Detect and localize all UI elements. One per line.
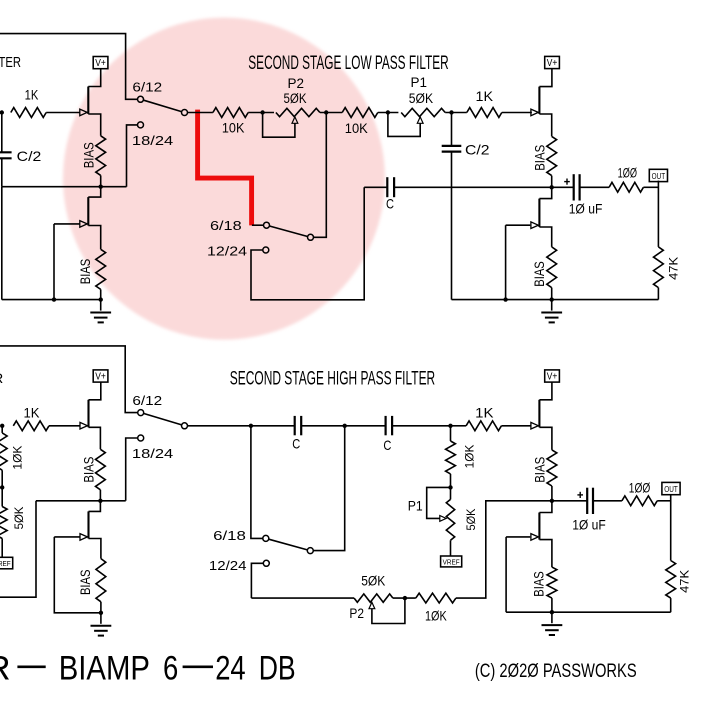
svg-text:R: R bbox=[0, 649, 11, 687]
transistor Q5 (upper JFET, HP first stage) bbox=[89, 382, 101, 400]
svg-text:BIAS: BIAS bbox=[532, 571, 547, 597]
svg-text:SECOND STAGE LOW PASS FILTER: SECOND STAGE LOW PASS FILTER bbox=[248, 53, 448, 74]
capacitor C/2 (left, cut) bbox=[0, 151, 12, 153]
V+ box U3 (HP first stage) bbox=[93, 370, 108, 382]
svg-text:BIAS: BIAS bbox=[532, 457, 547, 483]
junction dot bias rail (HP) bbox=[98, 499, 102, 503]
svg-text:12/24: 12/24 bbox=[207, 243, 247, 258]
VREF box (HP left, cut) bbox=[0, 557, 13, 569]
svg-text:1ØØ: 1ØØ bbox=[629, 479, 651, 495]
svg-text:BIAS: BIAS bbox=[81, 457, 96, 483]
resistor BIAS (Q6) bbox=[96, 559, 106, 602]
switch 6/18 (HP) bbox=[263, 535, 269, 541]
svg-text:1ØK: 1ØK bbox=[462, 445, 476, 469]
electrolytic + sign bbox=[564, 181, 570, 183]
resistor 47K (LP) bbox=[654, 247, 664, 288]
junction dot HP output rail bbox=[550, 610, 554, 614]
bottom rail HP output bbox=[506, 611, 671, 613]
resistor 10K #1 (LP) bbox=[213, 108, 248, 118]
capacitor 10uF (HP) bbox=[552, 500, 587, 502]
resistor 10K vertical (HP right) bbox=[450, 426, 452, 441]
junction node P2 right bbox=[324, 110, 328, 114]
svg-text:VREF: VREF bbox=[443, 557, 460, 566]
resistor BIAS (Q8) bbox=[547, 567, 557, 598]
junction dot bias rail bbox=[99, 185, 103, 189]
svg-text:5ØK: 5ØK bbox=[284, 91, 307, 106]
wire 1K to Q3 gate bbox=[502, 112, 532, 114]
junction dot main 2 (HP) bbox=[343, 424, 347, 428]
svg-text:BIAS: BIAS bbox=[78, 259, 93, 285]
svg-text:6: 6 bbox=[163, 649, 178, 687]
bottom net HP bbox=[251, 597, 354, 599]
svg-text:VREF: VREF bbox=[0, 559, 11, 568]
riser to 6/18 (HP) bbox=[251, 426, 263, 539]
resistor 100 (LP) bbox=[609, 182, 643, 192]
wire first-stage box top (HP) bbox=[0, 346, 138, 413]
svg-text:R: R bbox=[0, 371, 3, 387]
svg-text:5ØK: 5ØK bbox=[12, 507, 26, 530]
svg-text:BIAMP: BIAMP bbox=[59, 649, 150, 687]
wire 10K2 to P1 bbox=[378, 112, 399, 114]
junction dot main 3 (HP) bbox=[448, 424, 452, 428]
svg-text:5ØK: 5ØK bbox=[409, 91, 433, 106]
ground (HP first stage) bbox=[100, 613, 102, 624]
svg-text:5ØK: 5ØK bbox=[361, 573, 385, 588]
switch 12/24 (HP) bbox=[263, 560, 269, 566]
resistor BIAS (Q1 source) bbox=[96, 136, 106, 176]
resistor 10K #2 (LP) bbox=[342, 108, 378, 118]
capacitor C/2 (right) bbox=[451, 113, 453, 146]
highlighted wire (red trace 6/18 path) bbox=[198, 110, 252, 226]
potentiometer P1 (LP) 50K bbox=[401, 108, 445, 116]
wire 10K to gate node (HP) bbox=[456, 501, 552, 598]
resistor BIAS (Q7) bbox=[547, 450, 557, 486]
svg-text:24: 24 bbox=[215, 649, 246, 687]
svg-text:1Ø uF: 1Ø uF bbox=[572, 517, 606, 533]
capacitor C (LP) bbox=[386, 177, 388, 197]
svg-text:P1: P1 bbox=[411, 75, 428, 90]
transistor Q3 (upper JFET, LP output) bbox=[539, 68, 552, 87]
svg-text:47K: 47K bbox=[678, 570, 692, 593]
ground (HP output) bbox=[551, 612, 553, 623]
transistor Q2 (lower JFET, LP first stage) bbox=[88, 187, 100, 197]
svg-text:1K: 1K bbox=[476, 88, 494, 104]
junction dot main 1 (HP) bbox=[249, 424, 253, 428]
main wire HP bbox=[188, 425, 251, 427]
capacitor C #2 (HP) bbox=[345, 425, 386, 427]
V+ box U4 (HP output) bbox=[545, 370, 560, 382]
svg-text:10K: 10K bbox=[345, 120, 369, 136]
resistor BIAS (Q4) bbox=[547, 247, 557, 288]
svg-text:1Ø uF: 1Ø uF bbox=[569, 201, 603, 217]
svg-text:V+: V+ bbox=[95, 58, 106, 69]
potentiometer P2 (HP) 50K bbox=[354, 594, 393, 602]
V+ box U2 (LP output) bbox=[545, 56, 560, 68]
svg-text:C: C bbox=[383, 437, 391, 453]
svg-text:TER: TER bbox=[0, 55, 21, 71]
resistor BIAS (Q2 source) bbox=[96, 249, 106, 289]
svg-text:BIAS: BIAS bbox=[532, 145, 547, 171]
svg-text:1ØK: 1ØK bbox=[10, 446, 24, 470]
electrolytic + sign (HP) bbox=[577, 494, 583, 496]
resistor 10K (HP bottom) bbox=[416, 593, 456, 603]
transistor Q6 (lower JFET, HP first stage) bbox=[89, 501, 101, 512]
svg-text:18/24: 18/24 bbox=[132, 133, 173, 148]
main wire LP bbox=[188, 112, 213, 114]
left column 10K vertical (HP) bbox=[1, 426, 3, 433]
junction dot bottom (HP left) bbox=[99, 611, 103, 615]
junction dots bottom rail bbox=[52, 297, 56, 301]
svg-text:V+: V+ bbox=[547, 372, 558, 383]
switch 18/24 (HP) bbox=[138, 435, 144, 441]
svg-text:5ØK: 5ØK bbox=[464, 509, 478, 531]
mid rail LP first stage bbox=[2, 186, 127, 188]
resistor BIAS (Q5) bbox=[96, 449, 106, 490]
resistor BIAS (Q3) bbox=[547, 136, 557, 175]
switch blade (HP) bbox=[144, 414, 182, 425]
capacitor 10uF (LP) bbox=[552, 186, 574, 188]
ground (LP first stage) bbox=[100, 300, 102, 311]
bottom rail LP output bbox=[452, 299, 659, 301]
svg-text:C: C bbox=[292, 435, 300, 451]
svg-text:P1: P1 bbox=[408, 498, 423, 514]
wire 100 to OUT bbox=[643, 186, 658, 188]
svg-text:6/18: 6/18 bbox=[210, 218, 242, 233]
svg-text:V+: V+ bbox=[547, 58, 558, 69]
switch 6/12 throw (HP) bbox=[138, 410, 144, 416]
svg-text:C/2: C/2 bbox=[465, 142, 490, 158]
svg-text:12/24: 12/24 bbox=[209, 558, 247, 573]
switch 18/24 throw contact bbox=[138, 122, 144, 128]
switch 6/18 (LP) bbox=[252, 224, 263, 226]
junction node C/2 right bbox=[449, 110, 453, 114]
resistor 1K (LP right) bbox=[467, 108, 502, 118]
svg-text:BIAS: BIAS bbox=[532, 261, 547, 287]
resistor 47K (HP) bbox=[666, 561, 676, 599]
svg-text:18/24: 18/24 bbox=[132, 446, 173, 461]
switch 6/12 throw contact bbox=[138, 96, 144, 102]
junction node P2 left bbox=[260, 110, 264, 114]
svg-text:OUT: OUT bbox=[664, 484, 678, 494]
svg-text:P2: P2 bbox=[349, 605, 364, 621]
transistor Q1 (upper JFET, LP first stage) bbox=[88, 68, 100, 86]
capacitor C #1 (HP) bbox=[251, 425, 295, 427]
svg-text:1ØK: 1ØK bbox=[425, 608, 447, 624]
svg-text:1K: 1K bbox=[475, 405, 494, 421]
V+ box U1 (low-pass first stage) bbox=[93, 57, 108, 69]
resistor 1K (HP first stage) bbox=[13, 421, 49, 431]
svg-text:BIAS: BIAS bbox=[78, 570, 93, 596]
wire node line LP bbox=[364, 186, 387, 188]
junction dot P2 right (HP) bbox=[403, 596, 407, 600]
resistor 1K (HP right) bbox=[466, 421, 501, 431]
svg-text:6/18: 6/18 bbox=[213, 528, 246, 543]
svg-text:C/2: C/2 bbox=[17, 148, 42, 164]
switch blade 6/12->pole bbox=[144, 100, 182, 111]
OUT box (LP) bbox=[649, 169, 667, 181]
svg-text:1ØØ: 1ØØ bbox=[618, 165, 637, 181]
OUT box (HP) bbox=[662, 482, 680, 494]
svg-text:P2: P2 bbox=[288, 76, 305, 91]
VREF box (HP) bbox=[450, 540, 452, 556]
left leg to edge (HP) bbox=[0, 501, 36, 597]
potentiometer P1 (HP) 50K bbox=[450, 487, 452, 499]
junction node HP out gate bbox=[550, 499, 554, 503]
svg-text:OUT: OUT bbox=[652, 171, 666, 181]
svg-text:6/12: 6/12 bbox=[132, 393, 162, 408]
node dot left input (HP) bbox=[0, 424, 4, 428]
transistor Q8 (lower JFET, HP output) bbox=[539, 501, 552, 513]
resistor 50K vertical (HP) bbox=[1, 487, 3, 506]
wire left column down bbox=[1, 113, 3, 153]
wire first-stage feedback box top bbox=[0, 34, 137, 100]
switch pole contact bbox=[182, 110, 188, 116]
svg-text:6/12: 6/12 bbox=[132, 80, 162, 95]
resistor 1K (LP first stage) bbox=[11, 108, 46, 118]
transistor Q7 (upper JFET, HP output) bbox=[539, 382, 552, 400]
svg-text:C: C bbox=[386, 196, 394, 212]
svg-text:DB: DB bbox=[259, 649, 296, 687]
svg-text:SECOND STAGE HIGH PASS FILTER: SECOND STAGE HIGH PASS FILTER bbox=[230, 368, 435, 389]
junction node P1 left bbox=[386, 110, 390, 114]
junction node LP out gate bbox=[550, 185, 554, 189]
wire 12/24 riser bbox=[251, 187, 364, 299]
bottom rail LP first stage bbox=[2, 299, 101, 301]
ground (LP output) bbox=[551, 300, 553, 311]
svg-text:1K: 1K bbox=[24, 404, 41, 420]
switch pole (HP) bbox=[182, 423, 188, 429]
junction dot P1 top (HP) bbox=[448, 485, 452, 489]
node dot mid-left (HP) bbox=[0, 485, 4, 489]
switch 12/24 (LP) bbox=[263, 247, 269, 253]
junction dots LP output rail bbox=[503, 297, 507, 301]
resistor 100 (HP) bbox=[622, 496, 657, 506]
wire C to node bbox=[394, 186, 552, 188]
svg-text:(C) 2Ø2Ø PASSWORKS: (C) 2Ø2Ø PASSWORKS bbox=[475, 660, 637, 682]
transistor Q4 (lower JFET, LP output) bbox=[539, 187, 551, 198]
potentiometer P2 (LP) 50K bbox=[276, 108, 320, 116]
svg-text:V+: V+ bbox=[95, 372, 106, 383]
svg-text:10K: 10K bbox=[222, 120, 245, 136]
svg-text:BIAS: BIAS bbox=[81, 142, 96, 168]
node dot left input bbox=[0, 110, 4, 114]
wire 100 to OUT (HP) bbox=[657, 500, 671, 502]
svg-text:47K: 47K bbox=[667, 257, 681, 280]
svg-text:1K: 1K bbox=[25, 87, 39, 103]
mid rail HP first stage bbox=[36, 500, 126, 502]
